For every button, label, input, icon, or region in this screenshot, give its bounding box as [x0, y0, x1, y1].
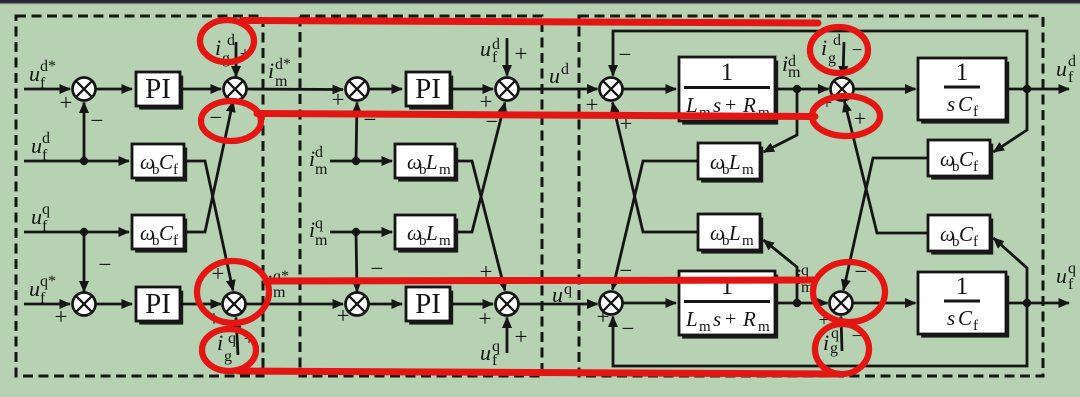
- dashed box: current controller section: [300, 16, 542, 376]
- svg-text:m: m: [315, 161, 328, 178]
- svg-text:u: u: [29, 276, 40, 301]
- node label i_g^d left: [215, 32, 235, 67]
- wire: [84, 231, 129, 234]
- red ellipse i_g^q left: [202, 329, 256, 371]
- sign + S4d: [480, 89, 493, 114]
- svg-text:g: g: [224, 348, 232, 365]
- svg-text:m: m: [273, 284, 286, 301]
- svg-text:f: f: [973, 104, 978, 120]
- sign - at S4d: [486, 109, 499, 134]
- summer S5q: [600, 292, 623, 315]
- svg-text:f: f: [173, 233, 178, 249]
- red ellipse minus left d: [201, 101, 261, 141]
- wire i_g^q up: [841, 317, 842, 352]
- dashed box: voltage controller section: [16, 16, 263, 376]
- svg-text:+: +: [332, 87, 345, 112]
- svg-text:C: C: [159, 150, 174, 174]
- red ellipse i_g^d left: [200, 20, 254, 62]
- svg-text:+: +: [854, 106, 867, 131]
- wire: [180, 88, 221, 91]
- wire bottom feedback q: [613, 303, 1027, 366]
- svg-text:d: d: [833, 32, 841, 49]
- node label i_m^q: [309, 215, 328, 249]
- svg-text:L: L: [728, 150, 741, 174]
- wire: [1006, 88, 1069, 91]
- svg-text:i: i: [268, 58, 274, 83]
- sign - at S2d: [210, 105, 223, 130]
- block 1/(sCf) d: [918, 58, 1009, 124]
- summer S3d: [346, 78, 369, 101]
- wire wLm-d plant output to S5q: [613, 161, 699, 290]
- wire: [83, 103, 86, 162]
- svg-text:f: f: [973, 318, 978, 334]
- svg-text:L: L: [425, 150, 438, 174]
- block wLm q: [395, 215, 458, 253]
- svg-text:m: m: [742, 233, 754, 249]
- wire top feedback d: [613, 31, 1027, 89]
- svg-text:C: C: [958, 306, 973, 330]
- dashed box: LC plant model section: [579, 16, 1043, 376]
- svg-text:m: m: [275, 73, 288, 90]
- svg-text:L: L: [728, 221, 741, 245]
- wire u_f^d to wCf: [994, 89, 1028, 152]
- block PI voltage d: [136, 72, 183, 110]
- svg-text:1: 1: [956, 273, 969, 300]
- node i_m^d mid: [352, 157, 360, 165]
- node label u_f^d* input: [29, 58, 56, 92]
- wire: [246, 88, 343, 91]
- svg-text:i: i: [215, 35, 221, 60]
- summer S5d: [600, 78, 623, 101]
- wire wCf-d output to S2q: [184, 161, 233, 291]
- node label i_g^q right: [823, 325, 839, 357]
- svg-text:−: −: [619, 42, 632, 67]
- wire i_m^d to wLm: [764, 89, 798, 152]
- svg-text:PI: PI: [145, 73, 171, 105]
- wire: [356, 231, 392, 234]
- svg-text:PI: PI: [415, 73, 441, 105]
- node u_f^q: [80, 228, 88, 236]
- node i_m^d plant: [793, 85, 801, 93]
- svg-text:m: m: [788, 64, 801, 81]
- red highlight bar row3: [266, 280, 814, 281]
- svg-text:C: C: [959, 222, 974, 246]
- svg-text:d: d: [315, 144, 323, 161]
- node label i_m^d*: [268, 56, 291, 90]
- node i_m^q plant: [793, 299, 801, 307]
- sign + u_f^q ff: [515, 324, 528, 349]
- wire u_f^q ff: [506, 318, 509, 354]
- svg-text:−: −: [91, 108, 104, 133]
- svg-text:f: f: [973, 234, 978, 250]
- svg-text:u: u: [480, 340, 491, 365]
- svg-text:f: f: [1068, 69, 1074, 86]
- node label i_g^q left: [217, 330, 236, 365]
- svg-text:+: +: [515, 324, 528, 349]
- node label i_m^d: [309, 144, 328, 178]
- svg-text:L: L: [685, 307, 698, 331]
- summer S3q: [346, 293, 369, 316]
- node label u_f^q output: [1056, 260, 1076, 293]
- svg-text:g: g: [830, 340, 838, 357]
- wire wCf-q plant output to S6d: [845, 102, 929, 234]
- sign + S1q: [55, 304, 68, 329]
- wire: [853, 88, 916, 91]
- red ellipse i_g^q right: [815, 324, 869, 374]
- svg-text:m: m: [439, 233, 451, 249]
- node label u_f^q input: [31, 201, 50, 235]
- svg-text:q*: q*: [40, 273, 56, 290]
- summer S2d: [224, 78, 247, 101]
- sign - S3q: [371, 256, 384, 281]
- svg-text:f: f: [1068, 276, 1074, 293]
- svg-text:f: f: [492, 49, 498, 66]
- svg-text:u: u: [549, 63, 560, 88]
- svg-text:−: −: [852, 40, 863, 61]
- sign + S5q: [597, 304, 610, 329]
- svg-text:+: +: [515, 41, 528, 66]
- node label u_f^d output: [1056, 53, 1076, 86]
- block wCf plant d: [928, 140, 993, 180]
- svg-text:u: u: [552, 282, 563, 307]
- svg-text:C: C: [958, 92, 973, 116]
- node label u_f^d input: [31, 130, 50, 164]
- wire: [368, 88, 402, 91]
- svg-text:R: R: [742, 307, 756, 331]
- svg-text:q: q: [42, 201, 50, 218]
- wire: [518, 303, 598, 306]
- svg-text:u: u: [1056, 56, 1067, 81]
- svg-text:+: +: [55, 304, 68, 329]
- sign + u_f^d ff: [515, 41, 528, 66]
- wire: [775, 88, 829, 91]
- svg-text:m: m: [439, 162, 451, 178]
- block 1/(Lms+Rm) q: [679, 271, 778, 339]
- sign + at S2q top: [212, 261, 225, 286]
- sign + S5d: [586, 92, 599, 117]
- wire u_f^d ff: [506, 38, 509, 76]
- block wCf plant q: [928, 215, 993, 255]
- wire: [24, 160, 84, 163]
- svg-text:PI: PI: [145, 288, 171, 320]
- svg-text:d*: d*: [40, 58, 56, 75]
- sign + at S2q main: [208, 306, 221, 331]
- svg-text:s: s: [713, 307, 721, 331]
- sign + S3d: [332, 87, 345, 112]
- sign - at S5q: [620, 258, 633, 283]
- svg-text:m: m: [699, 319, 711, 335]
- block PI current q: [406, 287, 453, 325]
- node u_f^q plant: [1023, 299, 1031, 307]
- svg-text:u: u: [29, 61, 40, 86]
- wire: [622, 88, 676, 91]
- svg-text:L: L: [425, 221, 438, 245]
- svg-text:d: d: [42, 130, 50, 147]
- red ellipse S6q right: [813, 262, 885, 322]
- svg-text:u: u: [31, 133, 42, 158]
- sign + at S4q: [480, 259, 493, 284]
- sign - at S6q: [855, 259, 868, 284]
- wire wLm-q output to S4d: [455, 103, 505, 233]
- wire u_f^q to wCf: [994, 238, 1028, 303]
- sign - S3d: [364, 107, 377, 132]
- red ellipse plus right d: [812, 96, 880, 136]
- svg-text:u: u: [1056, 263, 1067, 288]
- svg-text:+: +: [60, 90, 73, 115]
- wire: [356, 103, 357, 162]
- node label i_m^q plant: [795, 262, 814, 296]
- wire i_g^d down: [843, 42, 844, 77]
- svg-text:f: f: [492, 352, 498, 369]
- sign + i_g^q left: [244, 329, 255, 350]
- svg-text:d: d: [561, 61, 569, 78]
- node label u_f^q feedforward: [480, 338, 500, 369]
- wire: [450, 88, 493, 91]
- svg-text:s: s: [947, 306, 955, 330]
- svg-text:f: f: [973, 159, 978, 175]
- wire: [83, 232, 86, 292]
- node i_m^q mid: [352, 228, 360, 236]
- node label u^d: [549, 61, 569, 88]
- block wLm plant q: [698, 214, 763, 254]
- svg-text:m: m: [742, 162, 754, 178]
- sign + i_g^d left: [240, 44, 251, 65]
- node label i_m^q*: [266, 268, 289, 301]
- block wCf q: [132, 215, 187, 253]
- svg-text:s: s: [947, 92, 955, 116]
- sign + S3q: [337, 303, 350, 328]
- red ellipse i_g^d right: [810, 27, 868, 73]
- wire: [24, 231, 84, 234]
- red ellipse S2q left: [197, 261, 269, 323]
- node label u_f^q* input: [29, 273, 56, 307]
- sign - feedback d: [91, 108, 104, 133]
- summer S6d: [831, 78, 854, 101]
- wire i_g^d ff: [235, 42, 238, 77]
- wire wLm-q plant output to S5d: [613, 103, 699, 233]
- svg-text:g: g: [828, 50, 836, 67]
- svg-text:+: +: [337, 303, 350, 328]
- wire: [356, 160, 392, 163]
- svg-text:d: d: [1068, 53, 1076, 70]
- wire: [622, 302, 676, 305]
- svg-text:+: +: [479, 306, 492, 331]
- sign - feedback q: [99, 252, 112, 277]
- svg-text:q: q: [801, 262, 809, 279]
- block PI voltage q: [136, 287, 183, 325]
- summer S2q: [223, 293, 246, 316]
- svg-text:+: +: [725, 308, 736, 330]
- block PI current d: [406, 72, 453, 110]
- sign - i_g^q right: [852, 326, 863, 347]
- node u_f^d: [80, 157, 88, 165]
- summer S1q: [73, 293, 96, 316]
- wire: [368, 303, 402, 306]
- wire: [95, 88, 132, 91]
- sign + S4q: [479, 306, 492, 331]
- svg-text:C: C: [159, 221, 174, 245]
- sign - top feedback: [619, 42, 632, 67]
- wire: [180, 303, 221, 306]
- summer S4q: [496, 293, 519, 316]
- summer S6q: [830, 292, 853, 315]
- wire i_g^q ff: [236, 318, 238, 356]
- wire: [84, 160, 129, 163]
- sign + S1d: [60, 90, 73, 115]
- red highlight bar row1: [242, 21, 818, 24]
- wire: [518, 88, 598, 91]
- svg-text:i: i: [821, 35, 827, 60]
- wire i_m^q to wLm: [764, 240, 798, 303]
- svg-text:d: d: [227, 32, 235, 49]
- block 1/(Lms+Rm) d: [679, 57, 778, 125]
- wire: [330, 231, 356, 234]
- svg-text:q: q: [1068, 260, 1076, 277]
- svg-text:PI: PI: [415, 288, 441, 320]
- node u_f^d plant: [1023, 85, 1031, 93]
- svg-text:1: 1: [721, 59, 734, 86]
- wire: [95, 303, 132, 306]
- wire: [245, 303, 343, 306]
- sign + S6d main: [822, 93, 833, 114]
- wire: [852, 302, 916, 305]
- svg-text:m: m: [315, 232, 328, 249]
- node label i_m^d plant: [782, 51, 801, 81]
- red highlight bar row2: [257, 114, 815, 117]
- block wLm d: [395, 144, 458, 182]
- wire: [24, 303, 70, 306]
- svg-text:q: q: [315, 215, 323, 232]
- wire: [450, 303, 493, 306]
- red highlight bar row4: [238, 371, 838, 374]
- sign + at S6d: [854, 106, 867, 131]
- svg-text:1: 1: [956, 59, 969, 86]
- svg-text:m: m: [758, 319, 770, 335]
- sign - i_g^d right: [852, 40, 863, 61]
- sign - bottom feedback: [622, 316, 635, 341]
- svg-text:−: −: [99, 252, 112, 277]
- svg-text:+: +: [597, 304, 610, 329]
- svg-text:f: f: [173, 162, 178, 178]
- summer S1d: [73, 78, 96, 101]
- wire: [24, 88, 70, 91]
- svg-text:−: −: [371, 256, 384, 281]
- block wLm plant d: [698, 143, 763, 183]
- dark strip along top edge: [0, 0, 1080, 5]
- wire wCf-q output to S2d: [184, 102, 233, 233]
- svg-text:C: C: [959, 147, 974, 171]
- node label i_g^d right: [821, 32, 841, 67]
- wire: [775, 302, 828, 305]
- wire: [356, 232, 357, 292]
- sign + at S5d: [620, 111, 633, 136]
- wire: [330, 160, 356, 163]
- block wCf d: [132, 144, 187, 182]
- block 1/(sCf) q: [918, 272, 1009, 338]
- svg-text:u: u: [480, 36, 491, 61]
- sign + S6q main: [819, 310, 830, 331]
- wire wCf-d plant output to S6q: [844, 158, 929, 290]
- node label u_f^d feedforward: [480, 36, 500, 66]
- svg-text:−: −: [622, 316, 635, 341]
- svg-text:u: u: [31, 204, 42, 229]
- node label u^q: [552, 281, 572, 307]
- summer S4d: [496, 78, 519, 101]
- wire: [1006, 302, 1069, 305]
- wire wLm-d output to S4q: [455, 161, 505, 291]
- svg-text:d*: d*: [275, 56, 291, 73]
